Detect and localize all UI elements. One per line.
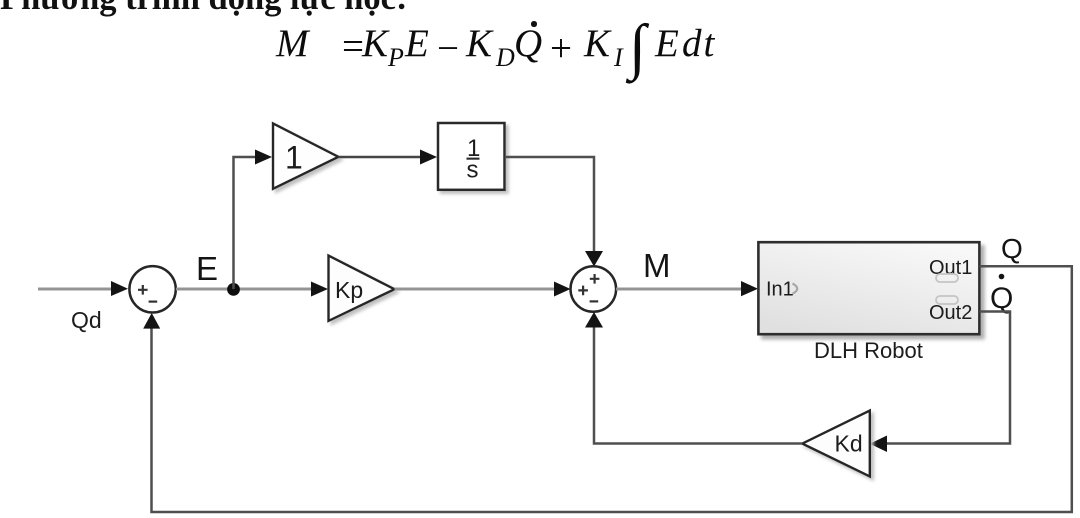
arrowhead into sum2 from left [554,282,571,297]
label Qdot [990,274,1013,315]
Out1 faint port icon [936,274,958,282]
wire: Kp to sum2 [395,288,558,291]
wire: Kd to sum2 bottom [594,326,802,444]
port label Out1 [929,257,972,279]
wire: Out1 to outer feedback loop [152,266,1072,512]
node junction dot [227,283,240,296]
svg-text:Kp: Kp [335,277,363,303]
arrowhead into gain 1 [255,150,272,165]
svg-text:M: M [643,247,671,284]
integrator block 1/s [438,123,505,190]
wire: gain1 to integrator [338,156,423,159]
sum junction S2 [571,266,617,312]
svg-text:Q: Q [1001,233,1023,264]
arrowhead into sum2 from top [585,251,603,267]
sum S1 plus sign [138,285,148,295]
arrowhead into Kp [311,282,328,297]
wire: sum2 to DLH Robot [616,288,744,291]
svg-text:Out1: Out1 [929,257,972,279]
arrowhead into In1 [741,281,758,296]
svg-text:E: E [196,250,218,287]
svg-text:Out2: Out2 [929,302,972,324]
svg-text:1: 1 [285,140,303,176]
wire: sum1 to Kp [176,288,315,291]
gain block Kd (triangle pointing left) [802,411,870,477]
label M [643,247,671,284]
wire: Out2 to Kd loop [886,312,1010,444]
Kd value label [835,431,863,457]
sum S1 minus sign [149,301,158,303]
svg-text:Q: Q [990,282,1013,315]
arrowhead into Kd from right [870,436,887,453]
sum junction S1 [129,266,175,312]
sum S2 minus sign [590,300,599,302]
DLH Robot subsystem block [758,242,979,334]
integrator label 1 over s [467,135,481,184]
block name DLH Robot [814,338,923,363]
gain block 1 (triangle) [273,123,338,188]
arrowhead into sum1 [111,281,128,296]
label E [196,250,218,287]
label Qd [71,307,102,333]
Out2 faint port icon [936,296,958,304]
title: Phuong trinh dong luc hoc [0,0,407,18]
arrowhead into integrator [420,150,437,165]
wire: integrator right, down to sum2 top [505,157,594,252]
wire: node up to top branch [234,157,259,289]
port label Out2 [929,302,972,324]
svg-text:Qd: Qd [71,307,102,333]
Kp value label [335,277,363,303]
sum S2 plus left sign [578,286,588,296]
svg-text:DLH Robot: DLH Robot [814,338,923,363]
arrowhead into sum1 from bottom [143,313,160,329]
sum S2 plus top sign [590,274,600,284]
gain block Kp (triangle) [329,256,395,321]
In1 port chevron icon [793,284,798,294]
svg-text:Kd: Kd [835,431,863,457]
svg-text:In1: In1 [766,279,794,301]
svg-text:s: s [467,157,479,184]
gain 1 value label [285,140,303,176]
label Q [1001,233,1023,264]
arrowhead into sum2 from bottom [585,312,603,328]
wire: input Qd to sum1 [38,288,113,291]
port label In1 [766,279,794,301]
equation M = Kp E - Kd Qdot + Ki integral E dt [276,24,309,63]
